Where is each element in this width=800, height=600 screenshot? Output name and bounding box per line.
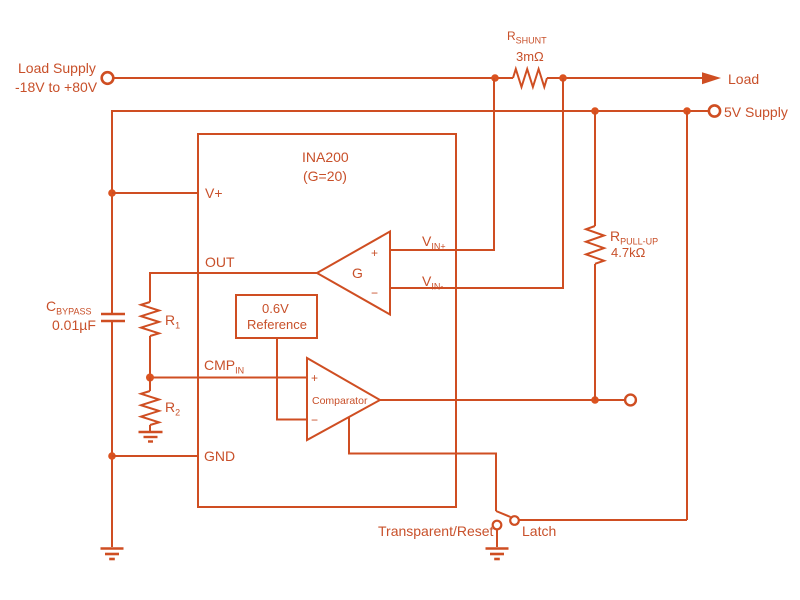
arrow: Load arrowhead xyxy=(702,72,721,84)
svg-text:+: + xyxy=(371,246,378,260)
terminal: Load Supply open circle xyxy=(102,72,114,84)
svg-text:OUT: OUT xyxy=(205,254,235,270)
wire: comparator output to open terminal xyxy=(380,399,625,401)
svg-text:G: G xyxy=(352,265,363,281)
wire: latch tap from comparator lower edge xyxy=(349,417,496,511)
svg-text:5V Supply: 5V Supply xyxy=(724,104,788,120)
svg-text:Reference: Reference xyxy=(247,317,307,332)
resistor RPULL-UP zigzag xyxy=(586,226,604,264)
wire: V+ pin wire xyxy=(112,192,198,194)
wire: CMP_IN pin wire xyxy=(150,377,307,379)
node: GND tap junction xyxy=(108,452,116,460)
wire: R1 bottom to CMP_IN node xyxy=(149,336,151,378)
svg-text:R2: R2 xyxy=(165,399,180,418)
svg-text:−: − xyxy=(311,413,318,427)
resistor R2 zigzag xyxy=(141,391,159,425)
node: comparator output junction at pull-up xyxy=(591,396,599,404)
node: CMP_IN junction xyxy=(146,374,154,382)
svg-text:RPULL-UP: RPULL-UP xyxy=(610,228,658,247)
wire: latch contact to right rail xyxy=(520,519,688,521)
node: RSHUNT left junction xyxy=(491,74,499,82)
resistor R1 zigzag xyxy=(141,302,159,336)
switch contact: Latch circle xyxy=(510,516,519,525)
svg-text:3mΩ: 3mΩ xyxy=(516,49,544,64)
ground: left rail ground symbol xyxy=(101,549,124,560)
svg-text:0.6V: 0.6V xyxy=(262,301,289,316)
wire: pull-up top from 5V rail xyxy=(594,111,596,226)
svg-text:-18V to +80V: -18V to +80V xyxy=(15,79,98,95)
node: V+ tap junction xyxy=(108,189,116,197)
svg-text:INA200: INA200 xyxy=(302,149,349,165)
node: 5V rail junction at R pull-up xyxy=(591,107,599,115)
wire: reference output to comparator inverting input xyxy=(277,338,307,420)
svg-text:VIN-: VIN- xyxy=(422,273,443,292)
terminal: 5V Supply open circle xyxy=(709,105,720,116)
wire: load supply rail left of RSHUNT xyxy=(114,77,513,79)
svg-text:CBYPASS: CBYPASS xyxy=(46,298,91,317)
svg-text:0.01µF: 0.01µF xyxy=(52,317,96,333)
svg-text:VIN+: VIN+ xyxy=(422,233,446,252)
wire: switch arm to latch contact xyxy=(496,511,511,517)
svg-text:Load: Load xyxy=(728,71,759,87)
ground: switch ground symbol xyxy=(486,549,509,560)
wire: reset contact to ground xyxy=(496,530,498,547)
IC box: INA200 outline xyxy=(198,134,456,507)
svg-text:−: − xyxy=(371,286,378,300)
wire: 5V supply rail xyxy=(112,111,708,313)
svg-text:+: + xyxy=(311,371,318,385)
wire: load supply rail right of RSHUNT xyxy=(547,77,704,79)
wire: CMP_IN node to R2 xyxy=(149,378,151,392)
node: RSHUNT right junction xyxy=(559,74,567,82)
svg-text:4.7kΩ: 4.7kΩ xyxy=(611,245,646,260)
ground: R2 ground symbol xyxy=(139,432,163,442)
resistor RSHUNT zigzag xyxy=(513,69,547,87)
wire: VIN- wire from G to RSHUNT right xyxy=(390,78,563,288)
wire: pull-up bottom to output line xyxy=(594,264,596,400)
wire: VIN+ wire from G to RSHUNT left xyxy=(390,78,494,250)
svg-text:CMPIN: CMPIN xyxy=(204,357,244,376)
switch contact: Transparent/Reset circle xyxy=(493,521,502,530)
wire: right rail up to 5V supply xyxy=(686,111,688,520)
terminal: comparator output open circle xyxy=(625,395,636,406)
op-amp U1 gain amplifier G triangle xyxy=(317,232,390,315)
svg-text:Comparator: Comparator xyxy=(312,395,368,407)
svg-text:GND: GND xyxy=(204,448,235,464)
node: 5V rail junction at latch branch xyxy=(683,107,691,115)
svg-text:V+: V+ xyxy=(205,185,223,201)
wire: left rail below capacitor down to ground xyxy=(111,322,113,547)
svg-text:Transparent/Reset: Transparent/Reset xyxy=(378,523,494,539)
capacitor CBYPASS plates xyxy=(101,313,125,316)
svg-text:RSHUNT: RSHUNT xyxy=(507,29,547,46)
svg-text:R1: R1 xyxy=(165,312,180,331)
svg-text:Latch: Latch xyxy=(522,523,556,539)
svg-text:Load Supply: Load Supply xyxy=(18,60,96,76)
svg-text:(G=20): (G=20) xyxy=(303,168,347,184)
reference box: 0.6V Reference xyxy=(236,295,317,338)
wire: OUT pin wire xyxy=(150,273,317,302)
wire: R2 bottom stub xyxy=(149,425,151,431)
wire: GND pin wire xyxy=(112,455,198,457)
comparator U2 triangle xyxy=(307,358,380,440)
